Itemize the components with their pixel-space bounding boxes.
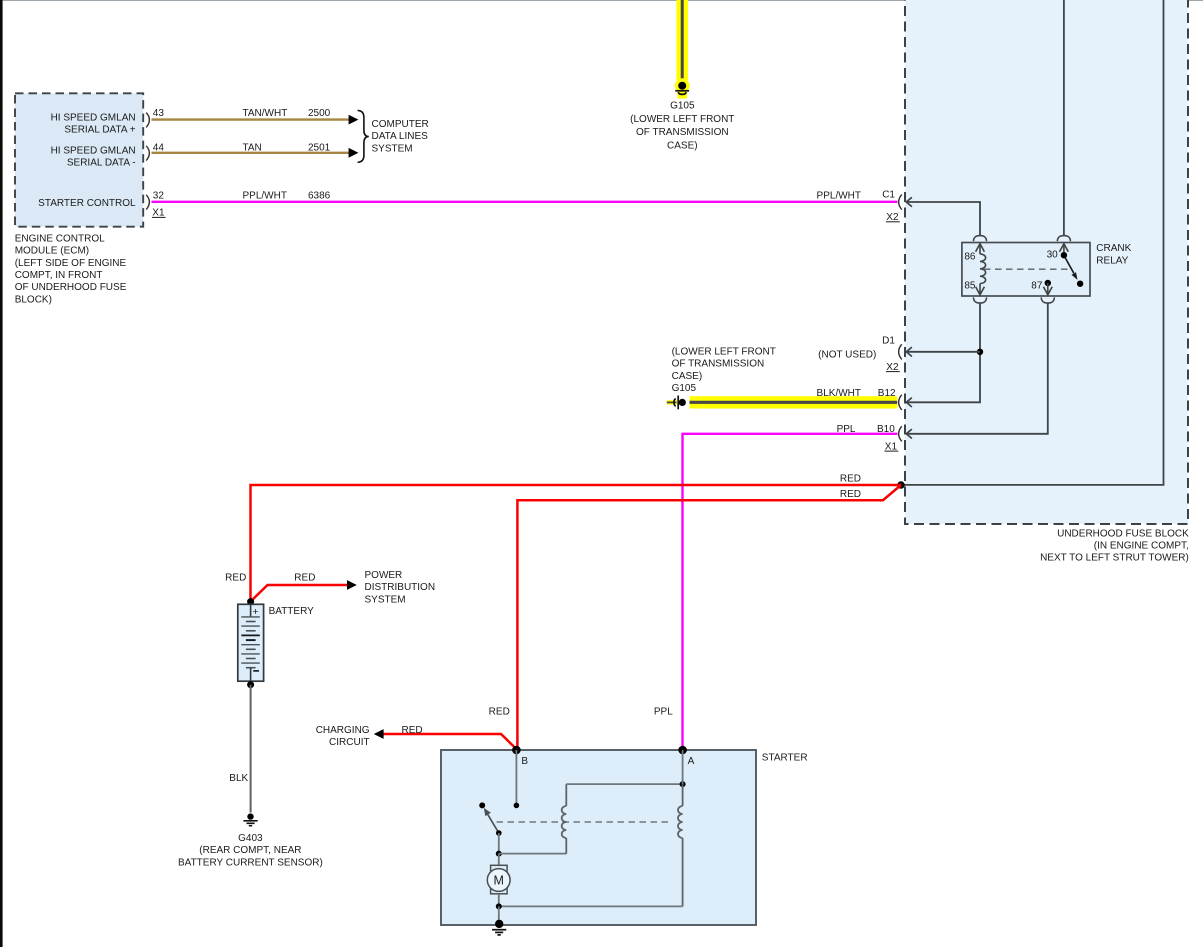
motor M1 — [487, 854, 510, 907]
svg-text:COMPT, IN FRONT: COMPT, IN FRONT — [15, 270, 103, 281]
node red junction dot — [897, 481, 905, 489]
connector B12 arc — [899, 395, 902, 410]
svg-text:STARTER: STARTER — [762, 752, 808, 763]
svg-text:TAN: TAN — [243, 142, 262, 153]
G105 top caption — [630, 100, 734, 151]
underhood fuse block caption — [1040, 528, 1189, 563]
underhood fuse block box — [905, 0, 1188, 524]
node switch lower dot — [496, 830, 502, 836]
ground G105 (top) — [675, 78, 690, 98]
wire B10 to relay 87 — [906, 303, 1048, 434]
wire BLK/WHT yellow (B12 row) — [690, 396, 898, 408]
svg-text:SYSTEM: SYSTEM — [372, 143, 413, 154]
relay switch arm — [1065, 257, 1074, 273]
wire switch to junction — [498, 833, 500, 854]
svg-text:COMPUTER: COMPUTER — [372, 119, 429, 130]
svg-text:BATTERY: BATTERY — [269, 606, 315, 617]
node battery positive dot — [247, 598, 254, 605]
svg-text:RED: RED — [840, 473, 861, 484]
wire relay 85 down to B12 — [906, 303, 980, 402]
svg-text:BLK: BLK — [229, 773, 248, 784]
svg-text:DATA LINES: DATA LINES — [372, 131, 429, 142]
wire from top to relay pin 30 — [1063, 0, 1065, 236]
pin 43 connector — [146, 113, 149, 128]
wire coil top to A line — [566, 783, 682, 785]
ECM module box — [15, 93, 143, 226]
hold-in coil — [678, 784, 683, 906]
arrow to power distribution system — [347, 580, 357, 590]
node battery negative dot — [247, 681, 254, 688]
svg-text:32: 32 — [153, 191, 165, 202]
node starter terminal A — [678, 746, 687, 755]
connector B10 arrow — [906, 429, 912, 438]
relay pin 30 arc — [1057, 236, 1070, 242]
wire B terminal down — [515, 750, 517, 805]
computer data lines system label — [372, 119, 429, 154]
svg-text:43: 43 — [153, 108, 165, 119]
svg-text:(NOT USED): (NOT USED) — [818, 350, 876, 361]
svg-text:DISTRIBUTION: DISTRIBUTION — [365, 582, 436, 593]
svg-text:OF UNDERHOOD FUSE: OF UNDERHOOD FUSE — [15, 282, 127, 293]
connector C1 arc — [899, 194, 902, 209]
relay pin 87 arc — [1041, 297, 1054, 303]
svg-text:SYSTEM: SYSTEM — [365, 594, 406, 605]
battery — [238, 604, 264, 681]
svg-text:M: M — [493, 874, 503, 888]
wire D1 branch — [906, 351, 980, 353]
relay pin 85 arc — [973, 297, 986, 303]
svg-text:(LOWER LEFT FRONT: (LOWER LEFT FRONT — [672, 346, 776, 357]
node B contact dot — [514, 803, 520, 809]
wire junction to pull-in coil — [499, 853, 567, 855]
arrow to charging circuit — [374, 729, 384, 739]
wire BLK/WHT yellow (top, to G105) — [676, 0, 688, 80]
svg-text:NEXT TO LEFT STRUT TOWER): NEXT TO LEFT STRUT TOWER) — [1040, 553, 1189, 564]
brace to computer data lines system — [358, 110, 369, 162]
wire PPL from B10 to starter A — [683, 434, 898, 748]
wire RED to power distribution — [251, 585, 349, 602]
relay pin 87 contact dot — [1045, 280, 1051, 286]
wire RED to charging circuit — [383, 734, 517, 750]
starter switch arm arrowhead — [484, 808, 491, 816]
relay switch arm arrowhead — [1072, 272, 1078, 280]
svg-text:OF TRANSMISSION: OF TRANSMISSION — [672, 359, 765, 370]
svg-text:+: + — [252, 606, 258, 618]
arrow to computer data lines (bottom) — [349, 148, 359, 158]
ECM pin labels inside — [38, 112, 136, 209]
svg-text:(LOWER LEFT FRONT: (LOWER LEFT FRONT — [630, 114, 734, 125]
node starter terminal B — [512, 746, 521, 755]
svg-text:RED: RED — [840, 489, 861, 500]
svg-text:OF TRANSMISSION: OF TRANSMISSION — [636, 127, 729, 138]
power distribution system label — [365, 570, 436, 605]
starter box — [441, 750, 756, 925]
wire B+ feed from top to red junction — [901, 0, 1164, 485]
svg-text:UNDERHOOD FUSE BLOCK: UNDERHOOD FUSE BLOCK — [1057, 528, 1189, 539]
svg-text:HI SPEED GMLAN: HI SPEED GMLAN — [51, 112, 136, 123]
svg-text:30: 30 — [1047, 250, 1059, 261]
node motor bottom junction dot — [496, 903, 502, 909]
svg-text:A: A — [688, 756, 695, 767]
svg-text:C1: C1 — [882, 189, 895, 200]
relay pin 30 contact dot — [1061, 252, 1067, 258]
wire C1 to relay pin 86 — [906, 202, 980, 236]
node D1 junction dot — [977, 349, 983, 355]
connector C1 arrow — [906, 197, 912, 206]
svg-text:STARTER CONTROL: STARTER CONTROL — [38, 198, 136, 209]
svg-text:(IN ENGINE COMPT,: (IN ENGINE COMPT, — [1094, 541, 1189, 552]
svg-text:BLOCK): BLOCK) — [15, 294, 52, 305]
svg-text:B: B — [521, 756, 528, 767]
svg-text:POWER: POWER — [365, 570, 403, 581]
svg-text:RED: RED — [294, 572, 315, 583]
svg-text:(LEFT SIDE OF ENGINE: (LEFT SIDE OF ENGINE — [15, 258, 127, 269]
svg-text:PPL: PPL — [654, 706, 673, 717]
svg-text:MODULE (ECM): MODULE (ECM) — [15, 246, 89, 257]
svg-text:D1: D1 — [882, 335, 895, 346]
wire PPL/WHT 6386 — [152, 201, 898, 203]
svg-text:G105: G105 — [672, 383, 697, 394]
wire BLK battery to G403 — [250, 685, 252, 813]
relay pin 85 arrow — [976, 284, 985, 295]
ground G403 — [243, 813, 257, 825]
wire TAN/WHT 2500 — [152, 118, 351, 120]
svg-text:RED: RED — [402, 725, 423, 736]
svg-text:CIRCUIT: CIRCUIT — [329, 737, 370, 748]
label X2 under D1 — [886, 362, 900, 373]
svg-text:G105: G105 — [670, 100, 695, 111]
svg-text:TAN/WHT: TAN/WHT — [243, 108, 288, 119]
svg-text:RED: RED — [225, 572, 246, 583]
connector D1 arrow — [906, 347, 912, 356]
wire RED battery feed — [251, 485, 902, 600]
svg-text:87: 87 — [1031, 280, 1043, 291]
starter switch arm — [488, 815, 499, 833]
pin 44 connector — [146, 146, 149, 161]
wire motor bottom to coil bottom — [499, 905, 683, 907]
label X2 under C1 — [886, 212, 900, 223]
X1 label (ECM) — [152, 208, 166, 219]
crank relay label — [1096, 243, 1131, 266]
node motor top junction dot — [496, 851, 502, 857]
node hold-in coil top dot — [680, 781, 686, 787]
svg-text:85: 85 — [964, 280, 976, 291]
connector B10 arc — [899, 426, 902, 441]
relay dashed linkage line — [984, 268, 1070, 270]
svg-text:CASE): CASE) — [667, 141, 698, 152]
svg-text:G403: G403 — [238, 833, 263, 844]
wire RED starter feed — [517, 485, 901, 748]
svg-text:RELAY: RELAY — [1096, 255, 1128, 266]
starter dashed linkage — [497, 821, 673, 823]
connector B12 arrow — [906, 398, 912, 407]
starter ground — [492, 920, 506, 935]
crank relay box — [962, 243, 1090, 297]
relay pin 86 arrow — [976, 244, 985, 254]
svg-text:HI SPEED GMLAN: HI SPEED GMLAN — [51, 146, 136, 157]
wire motor to starter ground — [498, 906, 500, 921]
wire TAN 2501 — [152, 152, 351, 154]
svg-text:CRANK: CRANK — [1096, 243, 1131, 254]
svg-text:86: 86 — [964, 252, 976, 263]
relay pin 30 arrow — [1060, 244, 1069, 254]
svg-text:CHARGING: CHARGING — [316, 725, 370, 736]
relay pin 86 arc — [973, 236, 986, 242]
wire A terminal down — [682, 750, 684, 784]
svg-text:2501: 2501 — [308, 142, 331, 153]
relay pin 87 arrow — [1043, 283, 1052, 295]
ECM caption — [15, 233, 127, 305]
svg-text:(REAR COMPT, NEAR: (REAR COMPT, NEAR — [199, 845, 301, 856]
connector D1 arc — [899, 344, 902, 359]
svg-text:SERIAL DATA -: SERIAL DATA - — [67, 158, 136, 169]
svg-text:CASE): CASE) — [672, 371, 703, 382]
pin 32 connector — [146, 195, 149, 210]
charging circuit label — [316, 725, 370, 748]
ground G105 (left, sideways) — [667, 396, 686, 410]
G105 left caption — [672, 346, 776, 394]
svg-text:BATTERY CURRENT SENSOR): BATTERY CURRENT SENSOR) — [178, 857, 323, 868]
pull-in coil — [562, 784, 567, 854]
svg-text:PPL/WHT: PPL/WHT — [817, 191, 861, 202]
G403 caption — [178, 833, 323, 868]
label X1 under B10 — [884, 441, 898, 452]
svg-text:SERIAL DATA +: SERIAL DATA + — [64, 125, 135, 136]
svg-text:2500: 2500 — [308, 108, 331, 119]
relay switch end contact dot — [1077, 281, 1083, 287]
arrow to computer data lines (top) — [349, 115, 359, 125]
node switch fixed contact dot — [479, 802, 485, 808]
svg-text:PPL/WHT: PPL/WHT — [243, 191, 287, 202]
svg-text:ENGINE CONTROL: ENGINE CONTROL — [15, 233, 105, 244]
relay coil — [980, 254, 986, 284]
svg-text:RED: RED — [489, 706, 510, 717]
svg-text:6386: 6386 — [308, 191, 331, 202]
